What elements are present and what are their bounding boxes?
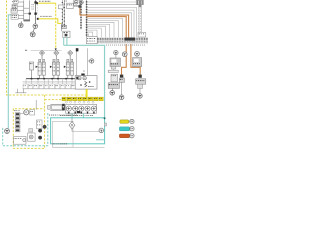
ground — [138, 94, 143, 99]
connector — [62, 25, 67, 28]
terminal row 30/15 (yellow) — [62, 97, 103, 101]
connector box — [138, 32, 146, 37]
ground — [119, 95, 124, 100]
legend orange — [119, 134, 129, 138]
switch S1 — [12, 0, 18, 3]
wire — [35, 100, 37, 110]
ground G3 — [30, 28, 35, 37]
wire GE2 (yellow) — [37, 18, 62, 24]
fuse F1 — [58, 5, 63, 9]
wire teal — [72, 113, 83, 118]
ground G2 — [33, 24, 38, 29]
wire GE1 (yellow) — [36, 2, 57, 50]
wire teal — [96, 139, 105, 141]
wire — [23, 88, 89, 90]
inner box — [52, 121, 73, 147]
sensor/motor V60 — [114, 50, 118, 57]
wire GE (yellow) — [86, 89, 88, 97]
connector cap — [24, 19, 30, 21]
connector — [34, 13, 36, 15]
injector group N30-N33 — [36, 50, 74, 78]
legend cyan — [119, 127, 129, 131]
label B+ — [25, 49, 27, 52]
legend icon — [130, 127, 134, 131]
connector column — [62, 0, 65, 25]
wire dashed — [36, 5, 38, 16]
wire — [60, 23, 62, 31]
wire — [24, 13, 31, 15]
label — [64, 0, 67, 3]
wire teal K-line — [8, 15, 11, 129]
label — [53, 142, 67, 145]
label — [14, 109, 19, 112]
switch S3 — [11, 9, 17, 13]
component — [15, 89, 26, 93]
label — [60, 114, 93, 117]
component — [37, 120, 42, 129]
connector tab — [104, 123, 106, 126]
control unit box (teal) — [51, 118, 105, 144]
wire — [24, 0, 30, 19]
terminal label row — [23, 84, 86, 89]
valve block — [108, 58, 120, 73]
node teal junction — [104, 117, 106, 119]
component — [30, 110, 35, 115]
ignition coil A — [122, 52, 127, 57]
label — [32, 4, 34, 9]
wire teal shield — [64, 38, 105, 118]
ground — [110, 91, 115, 96]
connector column — [80, 0, 82, 29]
throttle unit J338 — [76, 48, 88, 77]
harness box (yellow dashed) — [13, 95, 44, 148]
wire orange 2 — [87, 17, 127, 75]
legend icon — [130, 119, 134, 123]
ecu block J220 — [75, 76, 97, 90]
wire GE2 label — [40, 15, 51, 18]
label — [49, 114, 77, 117]
bus 2 — [23, 81, 76, 83]
motor V2 — [20, 110, 29, 115]
ecu connector column — [86, 0, 88, 36]
sensor pair — [74, 0, 83, 7]
wire orange 1 — [79, 5, 141, 75]
sensor G69 — [88, 59, 94, 63]
component — [28, 133, 36, 141]
connector F (top right) — [136, 0, 143, 7]
ECU connector strip J361 — [97, 38, 148, 43]
bus drops — [26, 79, 72, 84]
relay box — [86, 37, 97, 44]
coil A connector — [119, 75, 124, 95]
wire dashed pair — [139, 7, 141, 37]
wire GE1 label — [39, 0, 50, 3]
coil B connector — [136, 75, 146, 94]
ignition coil B — [135, 51, 140, 56]
ground bus — [26, 78, 76, 80]
wire — [52, 146, 104, 148]
component chain — [108, 74, 119, 90]
harness boundary left (yellow dashed) — [7, 1, 87, 96]
ground G1 — [19, 21, 24, 27]
diode symbol — [69, 118, 100, 132]
wire yellow dashed — [45, 99, 62, 101]
harness box (teal dashed) — [3, 113, 48, 146]
sensor B (air mass) — [63, 31, 70, 37]
terminal circles — [65, 101, 94, 103]
coil B block — [133, 58, 142, 67]
connector dark band — [125, 38, 136, 41]
ecu harness fan lower (gray wires) — [87, 18, 123, 37]
wire — [17, 0, 24, 20]
instrument cluster gauges — [66, 104, 97, 113]
ground — [5, 129, 10, 134]
connector — [38, 125, 46, 139]
fuse box — [67, 3, 74, 8]
relay J1 — [11, 14, 18, 19]
connector — [34, 1, 36, 3]
wire — [35, 0, 37, 24]
component — [29, 62, 33, 79]
wire — [31, 49, 62, 51]
fuel pump V54 — [48, 104, 65, 111]
ecu harness fan upper (gray wires) — [87, 2, 142, 37]
component — [14, 136, 26, 144]
sensor circle — [99, 128, 105, 133]
switch S2 — [12, 4, 17, 8]
connector pin strip — [15, 113, 20, 132]
component — [29, 129, 33, 132]
legend icon — [130, 134, 134, 138]
legend yellow — [120, 120, 129, 123]
label row under strip — [106, 44, 145, 47]
